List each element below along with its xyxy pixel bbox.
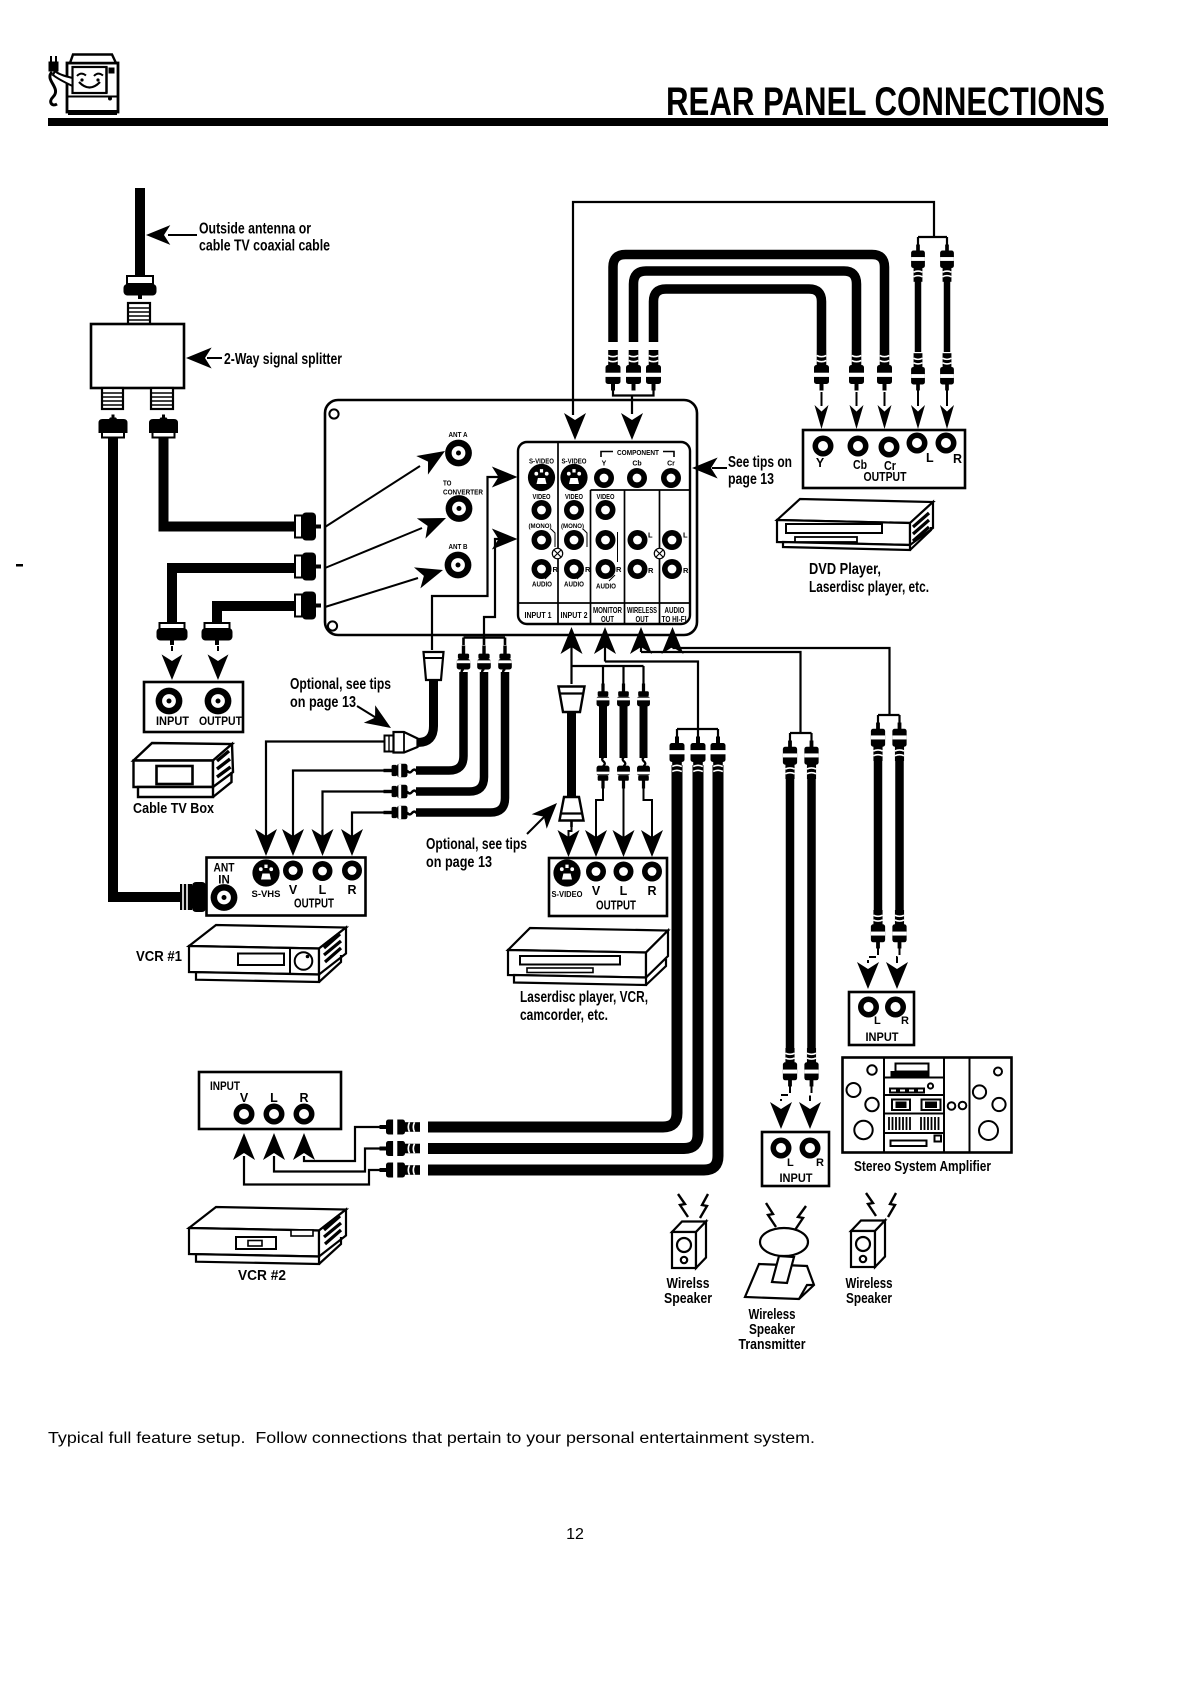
label band line [518,602,690,604]
cable TV box drawing [134,743,234,797]
left speaker antenna marks [678,1194,708,1218]
arrow into audio input1 [492,529,518,550]
label: Optional, see tips on page 13 (upper) [290,676,397,737]
input1 RCA cable V [416,672,464,771]
F-plug into VCR1 ANT IN [180,882,206,912]
RCA plug input2 V bottom [597,757,610,789]
arrow into mid R [641,830,663,857]
RCA plug into DVD R [940,353,954,390]
arrow into VCR1 L [312,829,334,856]
mid R jack [642,862,662,882]
svg-text:Y: Y [602,461,607,468]
svg-text:R: R [816,1157,824,1169]
arrow into VCR2 L [263,1133,285,1160]
svg-text:VIDEO: VIDEO [565,494,583,501]
wireless speaker left [672,1222,706,1269]
svg-text:Optional, see tips: Optional, see tips [290,676,391,693]
arrow into input2 top [564,413,586,440]
cable: panel ANT B to cable box OUTPUT [212,601,296,624]
wireless speaker right [851,1221,885,1268]
wire: to VCR1 R [352,813,384,837]
VCR1 V jack [283,861,303,881]
input1 RCA cable R [416,672,505,813]
label Wirelss Speaker [664,1276,712,1307]
svg-text:R: R [683,566,689,575]
RCA plug wireless R bottom [804,1048,818,1086]
arrow into VCR2 R [293,1133,315,1160]
transmitter L jack [771,1138,792,1159]
svg-text:V: V [289,883,298,897]
splitter top threaded stub [128,303,150,324]
wire: to VCR2 R [304,1127,380,1161]
mono tick input2 [583,529,587,547]
svg-text:TO HI-FI: TO HI-FI [662,615,687,624]
DVD player drawing [777,499,933,550]
label COMPONENT with bracket [601,450,674,457]
wire: feed to ANT B [325,559,446,607]
svg-text:2-Way signal splitter: 2-Way signal splitter [224,351,342,368]
svg-text:R: R [647,884,656,898]
right speaker antenna marks [866,1193,896,1217]
arrow into DVD R [940,390,954,429]
label AUDIO input2 [564,573,584,589]
monitor cable R [428,765,718,1170]
2-way signal splitter box [91,324,184,388]
amp L jack [858,997,879,1018]
VCR2 L jack [264,1104,285,1125]
svg-text:V: V [240,1091,249,1105]
DVD L jack [907,433,928,454]
mid output panel [549,858,667,916]
label AUDIO TO HI-FI [662,606,687,624]
F-plug on splitter output 1 [99,415,128,438]
svg-text:L: L [620,884,628,898]
svg-text:Speaker: Speaker [846,1291,892,1307]
svg-text:REAR PANEL CONNECTIONS: REAR PANEL CONNECTIONS [666,80,1105,124]
svg-text:OUT: OUT [636,615,649,624]
RCA plug Y left [606,350,621,391]
RCA plug hifi L bottom [871,910,885,948]
label: See tips on page 13 [692,454,792,488]
VCR1 R jack [342,861,362,881]
arrow up into MONITOR OUT column [594,627,616,662]
input2 svideo cable [567,712,576,797]
Cb jack [627,468,647,488]
L jack hifi [662,530,682,550]
svg-text:COMPONENT: COMPONENT [617,450,660,457]
divider input2/monitor [590,490,592,624]
DVD Cb jack [848,436,869,457]
F-plug above cable box OUTPUT [202,623,233,645]
RCA plug hifi R bottom [892,910,906,948]
arrow into VCR2 V [233,1133,255,1160]
wire: S-VIDEO input1 routing [432,477,505,650]
RCA plug to VCR2 L [380,1141,421,1156]
svg-text:cable TV coaxial cable: cable TV coaxial cable [199,238,330,255]
input2 RCA cable V [599,706,607,758]
RCA plug L top [911,245,925,282]
RCA plug input2 L top [617,684,630,716]
svg-text:Optional, see tips: Optional, see tips [426,836,527,853]
svg-text:12: 12 [566,1526,584,1543]
L jack input2 [564,530,584,550]
arrow into cable box OUTPUT [208,646,229,680]
wire: to VCR1 L [323,792,385,837]
wire: svideo to VCR1 S-VHS [266,742,385,837]
cable: splitter output 2 to panel ANT A [159,437,296,532]
wire: to VCR1 V [293,771,384,837]
svg-text:Laserdisc player, etc.: Laserdisc player, etc. [809,579,929,596]
VCR2 R jack [294,1104,315,1125]
svg-text:WIRELESS: WIRELESS [627,606,657,615]
stereo amplifier drawing [843,1058,1012,1153]
svg-text:(MONO): (MONO) [561,523,584,530]
hifi cable L [874,752,883,917]
cable: splitter output 1 to VCR1 ANT IN [108,437,182,902]
cable box INPUT jack [156,688,183,715]
RCA plug input2 R bottom [637,757,650,789]
wire: to VCR2 V [244,1156,380,1185]
svg-text:Cr: Cr [667,461,675,468]
wire: to VCR2 L [274,1149,380,1172]
label Wireless Speaker Transmitter [739,1307,806,1353]
F-plug on splitter output 2 [149,415,178,438]
label ANT IN [214,863,235,887]
input1 svideo cable [414,676,434,743]
VIDEO jack monitor [596,500,616,520]
svg-text:INPUT: INPUT [210,1081,240,1093]
arrow up into WIRELESS OUT column [630,627,652,654]
input2 cable bus [572,666,644,684]
RCA plug to VCR2 R [380,1120,421,1135]
arrow into transmitter R [799,1102,821,1129]
svg-text:R: R [901,1015,909,1027]
RCA plug Cr left [646,350,661,391]
label: 2-Way signal splitter [186,348,342,369]
svg-text:L: L [270,1091,278,1105]
svg-text:AUDIO: AUDIO [665,606,685,615]
svg-text:R: R [616,565,622,574]
wire to mid V [596,788,603,837]
svg-text:R: R [648,566,654,575]
svg-text:R: R [953,452,962,466]
monitor cable V [428,765,677,1127]
svg-text:AUDIO: AUDIO [564,582,584,589]
label DVD Player, Laserdisc player, etc. [809,561,929,596]
arrow into S-VIDEO input1 [492,467,518,488]
svg-text:L: L [874,1015,881,1027]
label TO CONVERTER [443,479,483,497]
component box bottom line [591,489,691,491]
mid V jack [586,862,606,882]
VCR2 V jack [234,1104,255,1125]
hifi cable R [895,752,904,917]
TV rear panel [325,400,697,635]
TV mascot icon [49,55,119,116]
arrow into amp R [886,962,908,989]
divider wireless/hifi [659,490,661,624]
svg-text:Stereo System Amplifier: Stereo System Amplifier [854,1159,991,1175]
R jack wireless [628,559,648,579]
Cr jack [661,468,681,488]
input2 RCA cable R [640,706,648,758]
mid L jack [614,862,634,882]
RCA plug input2 V top [597,684,610,716]
antenna coaxial cable [135,188,145,276]
svg-text:L: L [648,531,653,540]
laserdisc player drawing [508,928,668,985]
DVD R jack [936,433,957,454]
monitor cable L [428,765,698,1149]
svg-text:DVD Player,: DVD Player, [809,561,881,578]
optional svideo connector input1 [385,732,418,753]
svg-text:VIDEO: VIDEO [533,494,551,501]
divider input1/input2 [557,442,559,624]
F-plug into panel (ANT A feed) [295,513,321,541]
jack sub-panel [518,442,690,624]
VIDEO jack input1 [532,500,552,520]
R jack hifi [662,559,682,579]
svg-text:VIDEO: VIDEO [597,494,615,501]
RCA plug to VCR1 L [384,785,418,799]
TO CONVERTER jack [446,495,473,522]
svg-text:V: V [592,884,601,898]
svg-text:Wirelss: Wirelss [667,1276,710,1292]
component merge bracket [613,390,654,414]
R jack input2 [564,559,584,579]
svg-text:Outside antenna or: Outside antenna or [199,221,311,238]
splitter bottom stub 2 [151,388,173,409]
svg-text:CONVERTER: CONVERTER [443,488,483,497]
svg-text:Typical full feature setup. F: Typical full feature setup. Follow conne… [48,1430,815,1447]
svg-text:Speaker: Speaker [749,1322,795,1338]
svg-text:ANT: ANT [214,863,235,875]
arrow up into INPUT2 column [561,627,583,684]
RCA plug wireless L bottom [783,1048,797,1086]
svg-text:(MONO): (MONO) [529,523,552,530]
component cable Cb [634,271,857,350]
S-video jack input1 [528,464,555,491]
input2 RCA cable L [620,706,628,758]
mono tick input1 [551,529,555,547]
svg-text:Cb: Cb [632,461,641,468]
arrow into mid L [613,830,635,857]
svg-text:L: L [319,883,327,897]
cable: panel TO CONVERTER to cable box INPUT [167,563,296,624]
cable box jack panel [144,682,243,732]
header rule [48,118,1108,126]
xlr symbol 2 [654,548,664,558]
input1 svideo connector top [424,652,444,680]
RCA plug input1 V drop [457,646,471,680]
RCA plug Cb left [626,350,641,391]
VCR1 drawing [189,925,346,982]
svg-text:AUDIO: AUDIO [596,584,616,591]
label: Optional, see tips on page 13 (lower) [426,796,565,871]
wireless speaker transmitter [745,1228,814,1299]
RCA plug monitor R top [711,737,726,778]
DVD Y jack [813,436,834,457]
svg-text:MONITOR: MONITOR [593,606,622,615]
wire: audio over-the-top run [573,202,947,415]
splitter bottom stub 1 [102,388,123,409]
svg-text:AUDIO: AUDIO [532,582,552,589]
RCA plug input2 R top [637,684,650,716]
arrow into component top [621,413,643,440]
F-plug from panel (ANT B) [295,592,321,620]
transmitter antenna marks [766,1203,806,1230]
ANT B jack [445,552,472,579]
wire to transmitter L [781,1086,790,1101]
svg-text:Y: Y [816,456,825,470]
xlr symbol 1 [552,548,562,558]
svg-text:Laserdisc player, VCR,: Laserdisc player, VCR, [520,989,648,1006]
svg-text:L: L [787,1157,794,1169]
wireless cable R [807,770,816,1055]
F-plug above cable box INPUT [157,623,188,645]
svg-text:on page 13: on page 13 [426,854,492,871]
RCA plug monitor L top [691,737,706,778]
R jack monitor [596,559,616,579]
DVD Cr jack [879,437,900,458]
RCA plug into DVD L [911,353,925,390]
amp R jack [885,997,906,1018]
svg-text:INPUT: INPUT [780,1173,813,1185]
svg-text:ANT B: ANT B [449,542,468,551]
wire to transmitter R [810,1086,812,1101]
svg-text:TO: TO [443,479,452,488]
svg-text:S-VHS: S-VHS [252,889,281,900]
label WIRELESS OUT [627,606,657,624]
audio cable L [915,262,922,352]
RCA plug input2 L bottom [617,757,630,789]
VCR1 L jack [313,861,333,881]
svg-text:Cable TV Box: Cable TV Box [133,801,214,817]
RCA plug to VCR1 V [384,764,418,778]
svg-text:INPUT: INPUT [866,1032,899,1044]
svg-text:R: R [347,883,356,897]
arrow into cable box INPUT [162,646,183,680]
svg-text:VCR #2: VCR #2 [238,1268,286,1284]
RCA plug R top [940,245,954,282]
label Laserdisc player, VCR, camcorder, etc. [520,989,648,1024]
label AUDIO input1 [532,573,552,589]
wire: feed to TO CONVERTER [325,508,450,568]
svg-text:INPUT: INPUT [156,714,190,728]
panel screw hole bottom-left [328,621,337,630]
wire: feed to ANT A [325,442,451,527]
input2 svideo connector top [559,687,585,713]
input1 cable bus [464,638,506,646]
RCA plug to VCR2 V [380,1163,421,1178]
wire to mid L [623,788,625,837]
stray mark [16,564,23,567]
arrow into DVD Cr [878,392,892,429]
audio cable R [944,262,951,352]
label MONITOR OUT [593,606,622,624]
svg-text:L: L [683,531,688,540]
svg-text:on page 13: on page 13 [290,694,356,711]
arrow into mid V [585,830,607,857]
svg-text:L: L [926,451,934,465]
RCA plug hifi R top [892,723,906,761]
input2 svideo connector bottom [560,797,584,827]
mid S-VIDEO jack [553,859,580,886]
Y jack [594,468,614,488]
svg-text:OUTPUT: OUTPUT [294,897,334,911]
arrow into DVD L [911,390,925,429]
monitor LR bracket [617,532,619,562]
L jack input1 [532,530,552,550]
RCA plug into DVD Y [814,350,829,391]
svg-text:OUTPUT: OUTPUT [864,469,907,484]
L jack wireless [628,530,648,550]
transmitter input panel [762,1132,829,1186]
label: Outside antenna or cable TV coaxial cable [146,221,330,255]
VCR1 S-VHS jack [252,859,279,886]
svg-text:page 13: page 13 [728,471,774,488]
arrow into VCR1 R [341,829,363,856]
input1 RCA cable L [416,672,484,792]
svg-text:INPUT 2: INPUT 2 [561,611,588,620]
svg-text:S-VIDEO: S-VIDEO [552,890,583,899]
RCA plug input1 R drop [498,646,512,680]
svg-text:ANT A: ANT A [449,430,468,439]
arrow into DVD Cb [850,392,864,429]
svg-text:VCR #1: VCR #1 [136,949,182,965]
amp input panel [849,992,914,1045]
label AUDIO monitor [596,575,616,591]
RCA plug wireless R top [804,741,818,779]
wire: hifi out run [673,648,900,723]
wire: monitor out run [605,662,718,738]
transmitter R jack [800,1138,821,1159]
F-plug from panel (TO CONVERTER) [295,553,321,581]
RCA plug into DVD Cb [849,350,864,391]
RCA plug wireless L top [783,741,797,779]
wire: audio input1 routing [484,539,505,638]
wire to mid R [644,788,653,837]
svg-text:Wireless: Wireless [846,1276,893,1292]
VIDEO jack input2 [564,500,584,520]
svg-text:camcorder, etc.: camcorder, etc. [520,1007,608,1024]
RCA plug to VCR1 R [384,806,418,820]
wireless cable L [786,770,795,1055]
component cable Y [613,255,885,351]
RCA plug into DVD Cr [877,350,892,391]
wire to amp L [868,948,878,963]
arrow into transmitter L [770,1102,792,1129]
VCR1 ANT IN jack [211,884,238,911]
svg-text:OUTPUT: OUTPUT [199,714,243,728]
RCA plug hifi L top [871,723,885,761]
svg-text:R: R [585,565,591,574]
wire to amp R [897,948,900,963]
RCA plug monitor V top [670,737,685,778]
arrow into DVD Y [815,392,829,429]
R jack input1 [532,559,552,579]
VCR2 input panel [199,1072,341,1129]
svg-text:Wireless: Wireless [749,1307,796,1323]
ANT A jack [445,440,472,467]
svg-text:R: R [553,565,559,574]
S-video jack input2 [560,464,587,491]
arrow into VCR1 S-VHS [255,829,277,856]
arrow into VCR1 V [282,829,304,856]
wire to mid S-VIDEO [569,827,572,837]
svg-text:Transmitter: Transmitter [739,1337,806,1353]
DVD output panel [803,430,965,488]
